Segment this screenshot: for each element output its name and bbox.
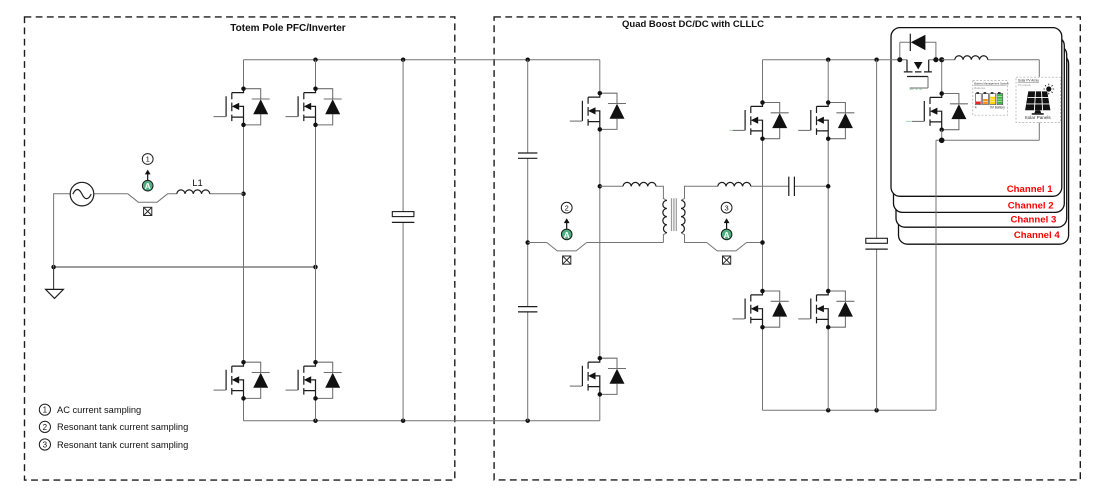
svg-text:9V Battery: 9V Battery	[990, 106, 1005, 110]
capacitor C3	[518, 307, 537, 312]
wire leg1R	[762, 60, 764, 411]
svg-text:1: 1	[146, 155, 150, 164]
transistor Q7	[733, 100, 789, 141]
inductor L1	[177, 190, 210, 194]
svg-text:Channel 3: Channel 3	[1010, 214, 1056, 225]
wire AC source left	[54, 194, 71, 267]
transformer T1 secondary	[681, 200, 685, 232]
svg-text:PV panels: PV panels	[1018, 83, 1031, 87]
svg-text:Channel 2: Channel 2	[1008, 200, 1054, 211]
wire leg2R	[827, 60, 829, 411]
wire AC return	[54, 266, 316, 268]
svg-text:3: 3	[725, 203, 729, 212]
box Totem Pole PFC/Inverter	[25, 17, 455, 480]
node card corner	[939, 57, 944, 62]
node leg2R mid	[826, 184, 831, 189]
node card wire right	[933, 57, 938, 62]
transistor Q4	[286, 360, 342, 401]
capacitor Cout	[865, 238, 887, 249]
node top of leg2R	[826, 57, 831, 62]
wire dc-link cap leg	[402, 60, 404, 421]
channel card 4	[899, 55, 1069, 245]
node bottom of leg2	[313, 418, 318, 423]
svg-text:Channel 4: Channel 4	[1014, 230, 1061, 241]
AC source V1	[70, 182, 94, 206]
wire leg1 left	[243, 60, 245, 421]
green artifact marks	[729, 89, 922, 130]
transistor Q8	[798, 100, 854, 141]
diode D1 branch	[900, 42, 936, 60]
node bottom of cap divider	[525, 418, 530, 423]
node AC return left	[51, 265, 56, 270]
wire output cap leg	[876, 60, 878, 411]
battery icon 4	[997, 92, 1003, 104]
battery icon 1	[975, 92, 981, 104]
battery icon 2	[983, 92, 989, 104]
svg-text:Batteries: Batteries	[974, 86, 986, 90]
inductor Lr1	[623, 182, 656, 186]
capacitor C2	[518, 153, 537, 158]
transistor Q12	[912, 91, 968, 132]
node AC return at leg2	[313, 265, 318, 270]
channel card 2	[894, 37, 1065, 213]
capacitor C1	[392, 212, 414, 223]
svg-text:Solar PV Array: Solar PV Array	[1018, 78, 1039, 82]
node top of leg2	[313, 57, 318, 62]
wire cap divider leg	[527, 60, 529, 421]
transistor Q5	[570, 91, 626, 132]
svg-text:Resonant tank current sampling: Resonant tank current sampling	[57, 440, 188, 450]
wire resonant tank top right	[681, 186, 828, 200]
transistor Q1	[214, 86, 270, 127]
inductor Lr2	[718, 182, 751, 186]
wire top bus left	[244, 59, 600, 61]
sun	[1043, 84, 1054, 95]
transistor Q9	[733, 289, 789, 330]
wire top bus right	[763, 59, 900, 61]
svg-text:Totem Pole PFC/Inverter: Totem Pole PFC/Inverter	[230, 23, 346, 34]
node top of output cap	[874, 57, 879, 62]
solar pv array box	[1016, 77, 1060, 122]
legend item 1	[39, 404, 141, 415]
node bottom of output cap	[874, 408, 879, 413]
svg-text:4: 4	[975, 106, 977, 110]
channel card 3	[896, 46, 1067, 228]
node clllc leg mid	[598, 184, 603, 189]
svg-text:Solar Panels: Solar Panels	[1025, 115, 1052, 120]
wire resonant tank bottom left	[528, 242, 664, 244]
capacitor Cr series	[789, 177, 795, 196]
node cap divider mid	[525, 240, 530, 245]
transformer T1 core	[672, 198, 677, 231]
transistor Q3	[214, 360, 270, 401]
svg-text:Channel 1: Channel 1	[1007, 184, 1054, 195]
legend item 3	[39, 439, 188, 450]
svg-text:2: 2	[565, 203, 569, 212]
wire AC source right to L1	[94, 193, 244, 195]
svg-text:Battery Management System: Battery Management System	[974, 81, 1009, 85]
node leg1R tank	[760, 240, 765, 245]
node card wire left	[897, 57, 902, 62]
current sensor 3	[707, 202, 747, 264]
wire bottom bus left	[244, 420, 600, 422]
svg-text:Resonant tank current sampling: Resonant tank current sampling	[57, 422, 188, 432]
box Quad Boost DC/DC with CLLLC	[494, 17, 1080, 480]
wire clllc leg	[599, 60, 601, 421]
transistor Q6	[570, 356, 626, 397]
current sensor 1	[128, 154, 168, 216]
svg-text:Quad Boost DC/DC with CLLLC: Quad Boost DC/DC with CLLLC	[622, 19, 764, 30]
wire leg2 left	[315, 60, 317, 421]
diode D1	[909, 34, 911, 51]
node bottom of dc-link cap	[401, 418, 406, 423]
wire transformer secondary bottom	[681, 233, 763, 243]
battery management system box	[973, 80, 1010, 115]
svg-text:1: 1	[43, 406, 48, 415]
node leg1 mid	[241, 192, 246, 197]
node top of cap divider	[525, 57, 530, 62]
svg-text:L1: L1	[192, 178, 203, 189]
wire card input	[900, 60, 942, 94]
legend item 2	[39, 421, 188, 432]
svg-text:3: 3	[43, 440, 48, 449]
wire card feed down	[935, 140, 937, 410]
transformer T1 primary	[663, 200, 667, 232]
inductor Lbat	[955, 56, 988, 60]
transistor Q11 rotated	[904, 60, 932, 88]
current sensor 2	[547, 202, 587, 264]
wire bottom bus right	[763, 409, 936, 411]
node top of dc-link cap	[401, 57, 406, 62]
solar panel icon	[1025, 91, 1050, 114]
transistor Q2	[286, 86, 342, 127]
channel card 1	[891, 28, 1062, 197]
wire card mosfet to battery bus	[936, 60, 1039, 141]
svg-text:AC current sampling: AC current sampling	[57, 405, 141, 415]
svg-text:2: 2	[43, 423, 48, 432]
wire resonant tank top left	[600, 186, 667, 242]
battery icon 3	[990, 92, 996, 104]
node battery bus	[939, 138, 945, 144]
transistor Q10	[798, 289, 854, 330]
node bottom of leg2R	[826, 408, 831, 413]
ground	[53, 267, 55, 289]
